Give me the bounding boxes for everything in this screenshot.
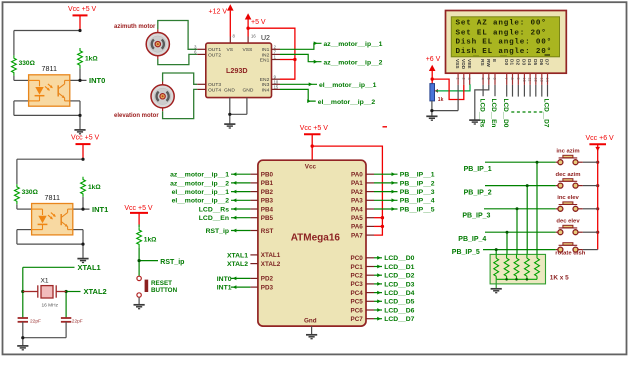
svg-text:OUT3: OUT3 [208, 82, 221, 88]
wire IN4 to el2 label [280, 89, 316, 101]
svg-text:PB1: PB1 [261, 180, 274, 187]
bottom wires to ground [23, 322, 66, 346]
svg-text:PB__IP__4: PB__IP__4 [400, 198, 435, 205]
wire GND pins to ground [230, 98, 247, 124]
svg-text:Vcc +5 V: Vcc +5 V [300, 125, 329, 132]
svg-text:Dish EL angle: 20°: Dish EL angle: 20° [456, 47, 552, 56]
svg-text:D4: D4 [526, 59, 532, 65]
svg-text:el__motor__ip__1: el__motor__ip__1 [319, 82, 377, 89]
svg-text:PB__IP__2: PB__IP__2 [400, 180, 435, 187]
svg-text:PB_IP_1: PB_IP_1 [464, 166, 492, 173]
svg-text:PB_IP_5: PB_IP_5 [452, 249, 480, 256]
svg-text:EN2: EN2 [260, 77, 270, 83]
svg-text:1K x 5: 1K x 5 [550, 275, 569, 282]
svg-text:LCD__Rs: LCD__Rs [478, 99, 485, 128]
svg-text:PB_IP_4: PB_IP_4 [458, 236, 486, 243]
svg-text:PB2: PB2 [261, 189, 274, 196]
svg-text:4: 4 [481, 78, 485, 80]
svg-text:VS: VS [227, 47, 234, 53]
svg-text:PB0: PB0 [261, 172, 274, 179]
svg-text:RST_ip: RST_ip [206, 228, 229, 235]
left net labels [170, 172, 248, 292]
svg-text:L293D: L293D [226, 66, 248, 75]
svg-text:dec elev: dec elev [556, 219, 580, 225]
svg-text:PC6: PC6 [351, 307, 364, 314]
ground [426, 116, 437, 120]
svg-text:PB_IP_2: PB_IP_2 [464, 189, 492, 196]
svg-text:14: 14 [545, 78, 549, 82]
left wires [231, 174, 250, 287]
svg-text:PC5: PC5 [351, 299, 364, 306]
svg-text:LCD__D5: LCD__D5 [384, 299, 414, 306]
right net labels [384, 172, 435, 324]
wire RW to ground [475, 85, 489, 120]
svg-text:LCD__D0: LCD__D0 [502, 99, 509, 128]
LCD module LM016L [446, 11, 567, 74]
svg-text:1kΩ: 1kΩ [144, 236, 157, 243]
svg-text:PC7: PC7 [351, 316, 364, 323]
svg-text:RST: RST [261, 228, 274, 235]
ground [17, 346, 28, 350]
optocoupler 7811 block2 [15, 135, 102, 263]
pin stubs left [197, 49, 280, 89]
svg-text:PA4: PA4 [351, 206, 363, 213]
svg-text:dec azim: dec azim [556, 172, 581, 178]
reset push button [137, 276, 141, 280]
svg-text:INT0: INT0 [217, 276, 232, 283]
svg-text:PD2: PD2 [261, 276, 274, 283]
svg-text:6: 6 [493, 78, 497, 80]
svg-text:XTAL1: XTAL1 [261, 252, 281, 259]
chip U1 ATMega16 [258, 160, 366, 326]
svg-text:PA7: PA7 [351, 232, 363, 239]
svg-text:LCD__D0: LCD__D0 [384, 255, 414, 262]
svg-text:PA1: PA1 [351, 180, 363, 187]
svg-text:VEE: VEE [466, 59, 472, 69]
resistor network RN1 1K x 5 [490, 254, 545, 284]
pin stubs right [366, 174, 374, 319]
svg-text:PC2: PC2 [351, 273, 364, 280]
wire pot wiper to VEE [436, 85, 470, 91]
svg-text:LCD__D3: LCD__D3 [384, 281, 414, 288]
svg-text:PC4: PC4 [351, 290, 364, 297]
svg-text:PA2: PA2 [351, 189, 363, 196]
svg-text:LCD__Rs: LCD__Rs [199, 206, 229, 213]
wire Vcc branch to PA5 PA6 PA7 [312, 146, 382, 235]
svg-text:PB_IP_3: PB_IP_3 [462, 213, 490, 220]
svg-text:LCD__D1: LCD__D1 [384, 264, 414, 271]
potentiometer 1k [430, 84, 435, 101]
wire IN3 to el1 label [280, 83, 317, 85]
resistor 1K [514, 258, 519, 276]
svg-text:LCD__D7: LCD__D7 [543, 99, 550, 128]
svg-text:Vcc +6 V: Vcc +6 V [586, 135, 615, 142]
svg-text:XTAL2: XTAL2 [227, 261, 248, 268]
svg-text:5: 5 [486, 78, 490, 80]
svg-text:INT1: INT1 [217, 285, 232, 292]
wire [139, 225, 158, 277]
pin names [208, 47, 270, 93]
svg-text:PB4: PB4 [261, 206, 274, 213]
svg-text:PA3: PA3 [351, 198, 363, 205]
svg-text:VDD: VDD [460, 59, 466, 70]
svg-text:15: 15 [274, 85, 279, 90]
svg-text:az__motor__ip__1: az__motor__ip__1 [170, 172, 229, 179]
button dec elev [556, 219, 583, 235]
resistor R 1k [137, 227, 142, 247]
svg-text:D2: D2 [514, 59, 520, 65]
wire +5V to EN1 EN2 [248, 28, 295, 79]
rotated pin numbers [456, 78, 549, 82]
svg-text:Vcc: Vcc [305, 163, 317, 170]
rotated pin names [454, 59, 549, 70]
wires D0-D7 [507, 85, 548, 97]
svg-text:Set AZ angle: 00°: Set AZ angle: 00° [456, 19, 547, 28]
wire to ground [495, 279, 497, 288]
svg-text:GND: GND [224, 87, 235, 93]
svg-text:+12 V: +12 V [209, 9, 228, 16]
svg-text:INT0: INT0 [89, 76, 105, 85]
svg-text:16: 16 [251, 33, 256, 38]
button rotate dish [555, 243, 586, 257]
ground [224, 124, 235, 128]
svg-text:16 MHz: 16 MHz [42, 302, 59, 308]
wire IN1 to az label [280, 43, 322, 49]
pin stubs [458, 73, 547, 85]
wire IN2 to az2 label [280, 54, 322, 61]
svg-text:LCD__En: LCD__En [490, 99, 497, 128]
svg-text:Vcc +5 V: Vcc +5 V [124, 205, 153, 212]
red dash mark [383, 126, 388, 128]
internal pin names [261, 172, 363, 324]
gray wires buttons to rail [583, 162, 598, 249]
svg-text:inc elev: inc elev [557, 195, 579, 201]
svg-text:D6: D6 [538, 59, 544, 65]
svg-text:LCD__D4: LCD__D4 [384, 290, 414, 297]
svg-text:RST_ip: RST_ip [160, 259, 184, 266]
dashed continuation [511, 111, 542, 113]
svg-text:PA6: PA6 [351, 224, 363, 231]
svg-text:PB__IP__5: PB__IP__5 [400, 206, 435, 213]
svg-text:XTAL2: XTAL2 [84, 287, 107, 296]
svg-text:azimuth motor: azimuth motor [114, 24, 156, 30]
vertical drops to resistor network [496, 162, 537, 254]
wire to ground [138, 297, 140, 304]
svg-text:22pF: 22pF [72, 318, 83, 324]
row wires green [483, 162, 556, 249]
svg-text:IN1: IN1 [262, 47, 270, 53]
svg-text:D3: D3 [521, 59, 527, 65]
svg-text:az__motor__ip__2: az__motor__ip__2 [170, 180, 229, 187]
svg-text:XTAL1: XTAL1 [227, 252, 248, 259]
resistor 1K [504, 258, 509, 276]
ground [491, 289, 502, 293]
right wires [374, 174, 398, 319]
ground [134, 305, 145, 309]
svg-text:X1: X1 [41, 278, 49, 285]
wire elevation motor to OUT3/OUT4 [163, 73, 198, 119]
wire E [494, 85, 496, 96]
ground [306, 335, 317, 339]
svg-text:XTAL2: XTAL2 [261, 261, 281, 268]
svg-text:Set EL angle: 20°: Set EL angle: 20° [456, 29, 547, 38]
svg-text:Dish EL angle: 00°: Dish EL angle: 00° [456, 37, 552, 46]
svg-text:22pF: 22pF [30, 318, 41, 324]
svg-text:D5: D5 [532, 59, 538, 65]
svg-text:IN3: IN3 [262, 82, 270, 88]
svg-text:RS: RS [479, 59, 485, 66]
svg-text:IN2: IN2 [262, 52, 270, 58]
svg-text:PD3: PD3 [261, 284, 274, 291]
svg-text:Gnd: Gnd [304, 317, 317, 324]
svg-text:PC3: PC3 [351, 281, 364, 288]
svg-text:LCD__D6: LCD__D6 [384, 307, 414, 314]
button inc elev [556, 195, 583, 211]
svg-text:7: 7 [504, 78, 508, 80]
svg-text:+6 V: +6 V [426, 56, 441, 63]
svg-text:OUT4: OUT4 [208, 87, 221, 93]
svg-text:INT1: INT1 [92, 205, 108, 214]
wire XTAL1 net [23, 267, 81, 318]
resistor 1K [494, 258, 499, 276]
capacitor C1 22pF [18, 318, 72, 322]
button dec azim [556, 172, 583, 188]
svg-text:RW: RW [485, 59, 491, 67]
svg-text:2: 2 [461, 78, 465, 80]
svg-text:el__motor__ip__2: el__motor__ip__2 [172, 198, 230, 205]
svg-text:PC0: PC0 [351, 255, 364, 262]
svg-text:LCD__D7: LCD__D7 [384, 316, 414, 323]
svg-text:1: 1 [456, 78, 460, 80]
svg-text:PB5: PB5 [261, 215, 274, 222]
wire RS [482, 85, 484, 96]
wire +6V to VDD (red staircase) [432, 79, 464, 99]
svg-text:PA0: PA0 [351, 172, 363, 179]
pin stubs left [250, 174, 258, 287]
svg-text:BUTTON: BUTTON [151, 287, 178, 294]
svg-text:az__motor__ip__2: az__motor__ip__2 [324, 59, 383, 66]
wire Gnd to ground [311, 326, 313, 335]
svg-text:+5 V: +5 V [251, 19, 266, 26]
resistor 1K [535, 258, 540, 276]
svg-text:inc azim: inc azim [556, 149, 579, 155]
svg-text:VSS: VSS [454, 59, 460, 69]
svg-text:RESET: RESET [151, 280, 172, 287]
svg-text:8: 8 [510, 78, 514, 80]
ground [469, 120, 480, 124]
svg-text:LCD__En: LCD__En [199, 215, 229, 222]
svg-text:PA5: PA5 [351, 215, 363, 222]
svg-text:PB3: PB3 [261, 198, 274, 205]
svg-text:D7: D7 [544, 59, 550, 65]
svg-text:10: 10 [522, 78, 526, 82]
svg-text:elevation motor: elevation motor [114, 113, 159, 119]
svg-text:az__motor__ip__1: az__motor__ip__1 [324, 41, 383, 48]
button inc azim [556, 149, 583, 165]
svg-text:13: 13 [539, 78, 543, 82]
svg-text:OUT2: OUT2 [208, 52, 221, 58]
svg-text:GND: GND [243, 87, 254, 93]
resistor 1K [525, 258, 530, 276]
svg-text:12: 12 [533, 78, 537, 82]
svg-text:el__motor__ip__2: el__motor__ip__2 [318, 99, 376, 106]
svg-text:3: 3 [467, 78, 471, 80]
svg-text:VSS: VSS [243, 47, 254, 53]
wire VSS to pot bottom / ground [432, 85, 458, 116]
svg-text:LCD__D2: LCD__D2 [384, 273, 414, 280]
svg-text:PC1: PC1 [351, 264, 364, 271]
wire azimuth motor to OUT1/OUT2 [158, 21, 197, 65]
svg-text:el__motor__ip__1: el__motor__ip__1 [172, 189, 230, 196]
svg-text:OUT1: OUT1 [208, 47, 221, 53]
svg-text:XTAL1: XTAL1 [78, 263, 101, 272]
optocoupler U? 7811 block1 [12, 6, 99, 134]
svg-text:IN4: IN4 [262, 87, 270, 93]
svg-text:1k: 1k [438, 97, 444, 103]
svg-text:U2: U2 [261, 35, 270, 42]
svg-text:11: 11 [528, 78, 532, 82]
svg-text:9: 9 [516, 78, 520, 80]
svg-text:PB__IP__3: PB__IP__3 [400, 189, 435, 196]
svg-text:ATMega16: ATMega16 [291, 233, 341, 244]
svg-text:PB__IP__1: PB__IP__1 [400, 172, 435, 179]
svg-text:EN1: EN1 [260, 57, 270, 63]
